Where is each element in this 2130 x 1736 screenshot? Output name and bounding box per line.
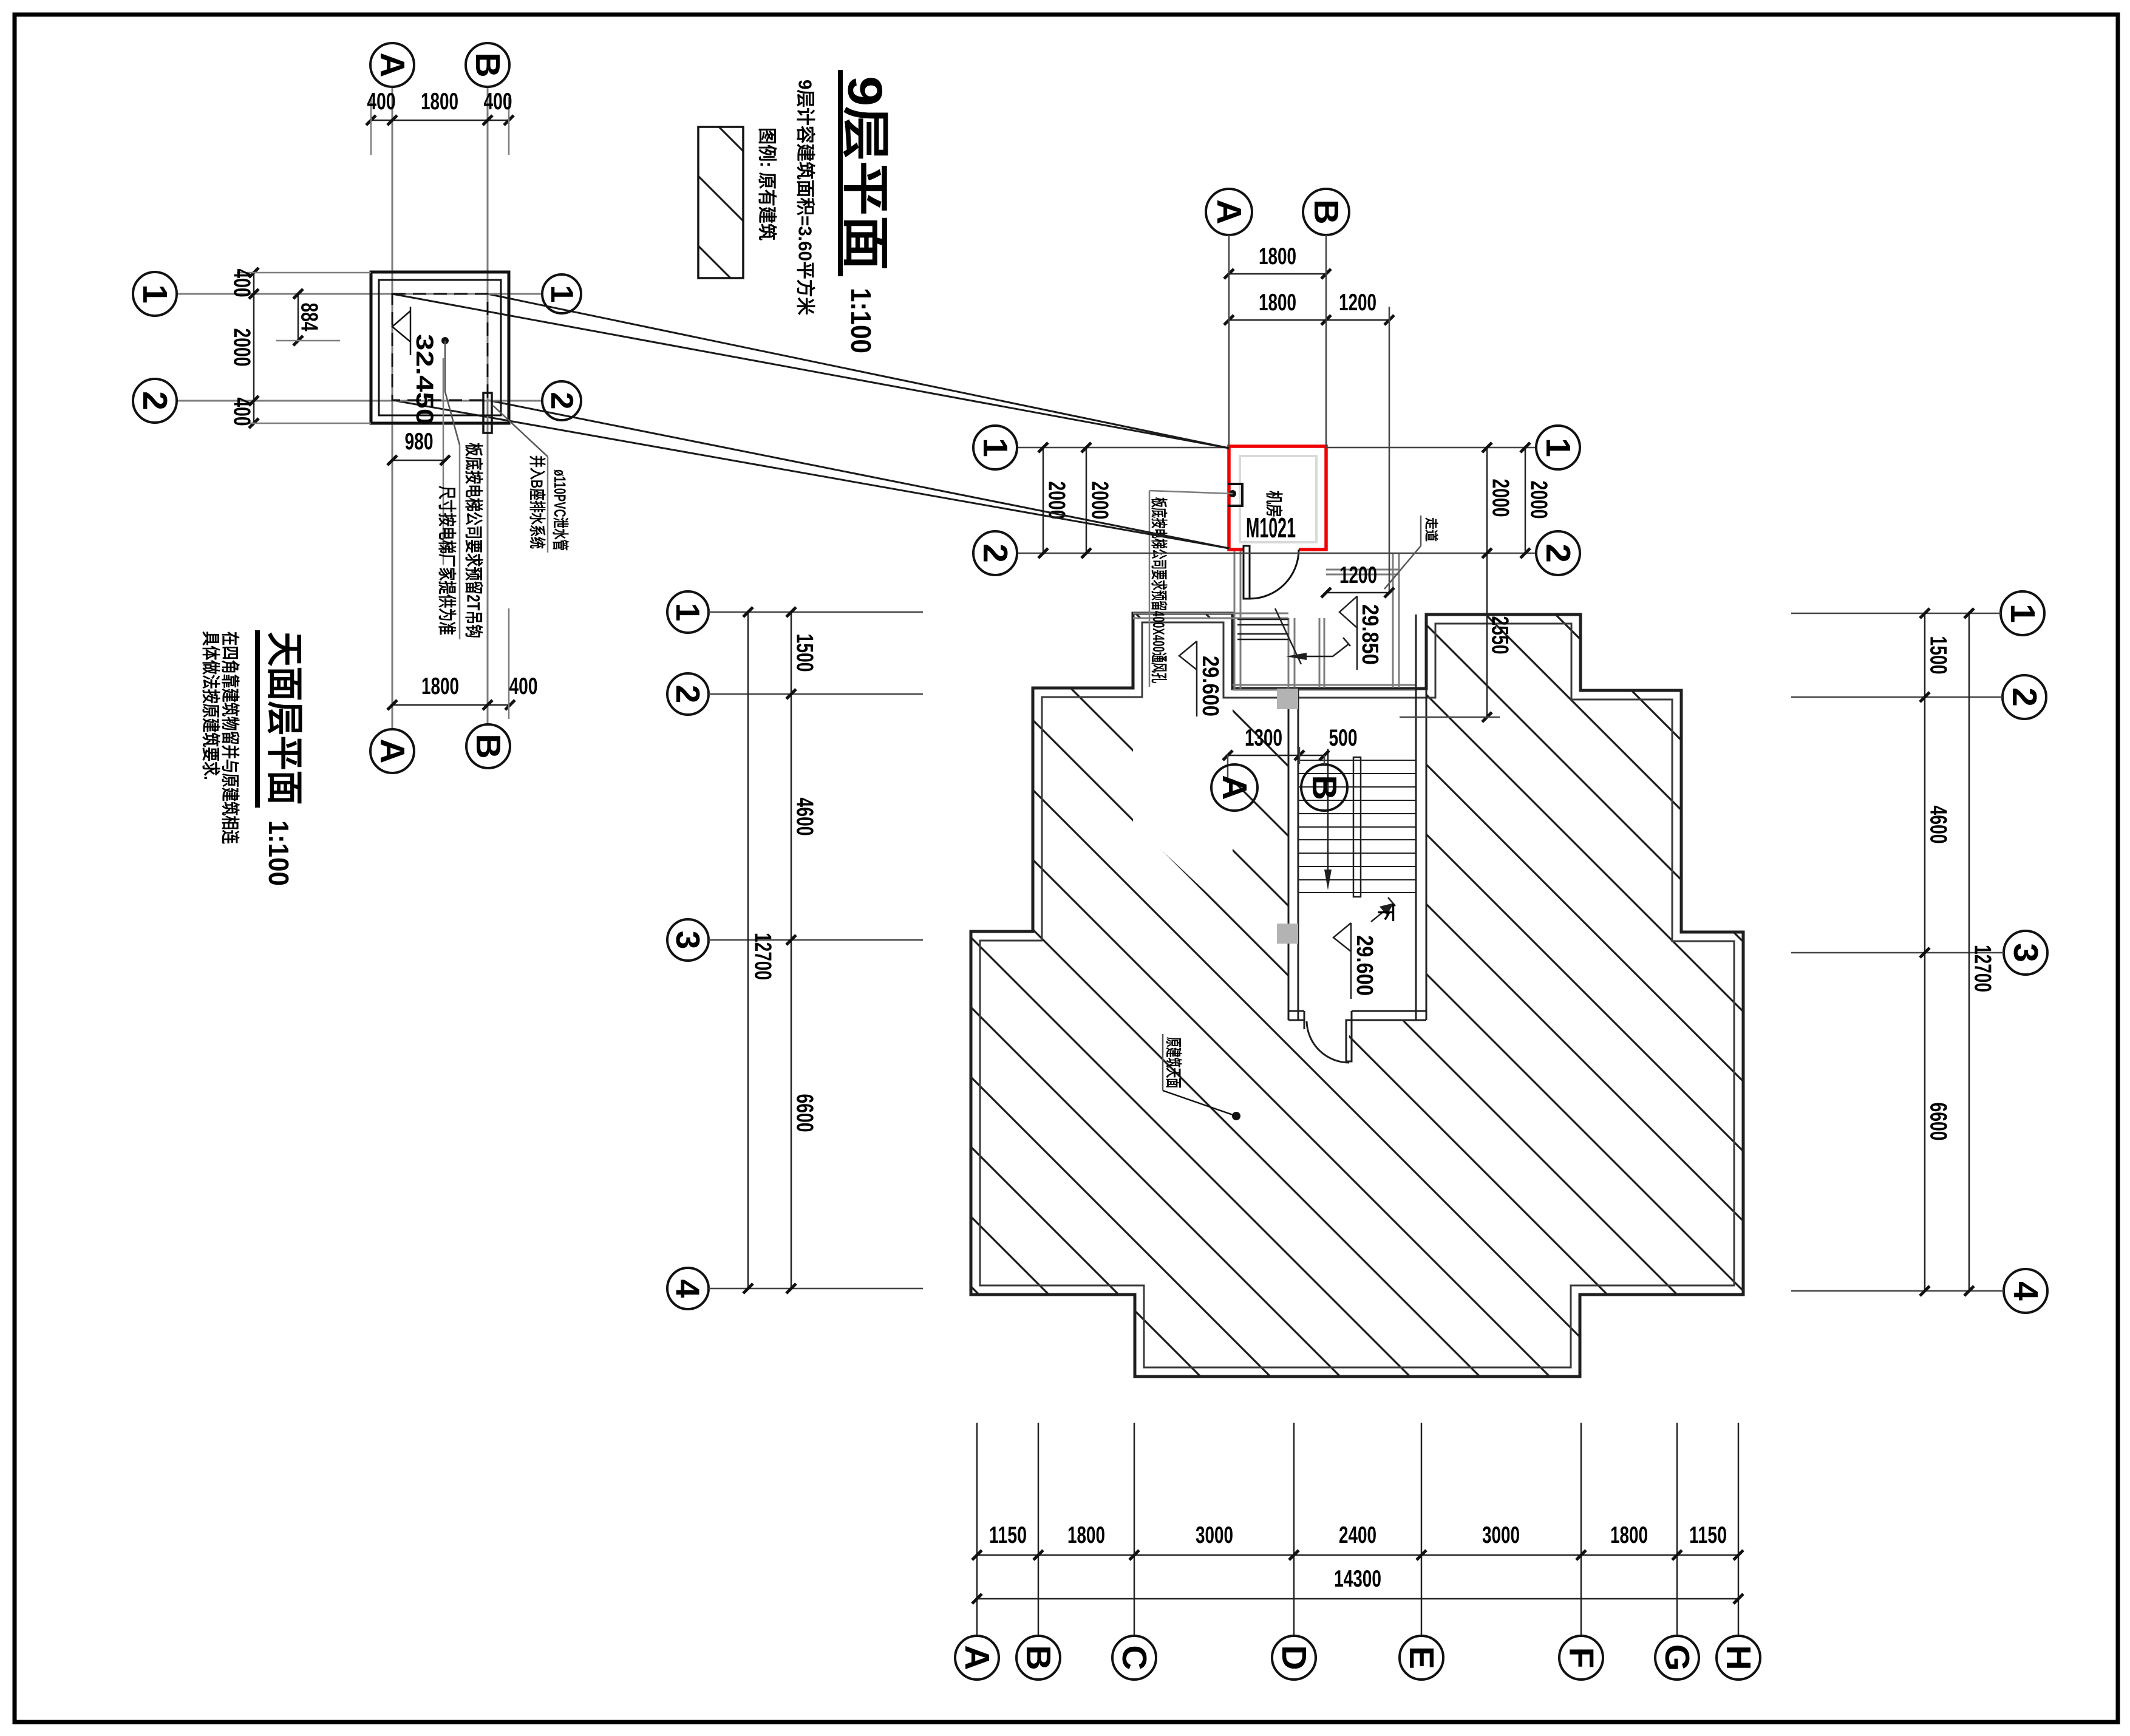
roof area label 原建筑天面 bbox=[1162, 1034, 1164, 1091]
bottom grid bubble A bbox=[370, 729, 414, 773]
grid line 2 bbox=[1017, 553, 1536, 554]
svg-text:2: 2 bbox=[976, 543, 1015, 563]
stairwell left wall bbox=[1288, 689, 1290, 1020]
bottom total dim line bbox=[977, 1598, 1738, 1600]
svg-text:400: 400 bbox=[229, 398, 255, 426]
detail line bottom a bbox=[392, 400, 1229, 548]
svg-text:板底按电梯公司要求预留2T吊钩: 板底按电梯公司要求预留2T吊钩 bbox=[463, 443, 483, 638]
svg-text:400: 400 bbox=[509, 673, 538, 700]
stair center railing bbox=[1353, 757, 1361, 897]
svg-text:1800: 1800 bbox=[1259, 243, 1296, 270]
level symbol 32.450 bbox=[392, 311, 410, 342]
svg-text:3000: 3000 bbox=[1196, 1522, 1233, 1548]
svg-text:板底按电梯公司要求预留400X400通风孔: 板底按电梯公司要求预留400X400通风孔 bbox=[1149, 497, 1168, 683]
column square lower bbox=[1277, 924, 1298, 944]
grid line 1 bbox=[1017, 447, 1229, 449]
top grid bubble A bbox=[370, 43, 414, 87]
right col bubble 2 bbox=[2002, 675, 2046, 719]
svg-text:1: 1 bbox=[2003, 604, 2042, 623]
svg-text:12700: 12700 bbox=[750, 933, 776, 980]
grid bubble 2 left bbox=[973, 531, 1017, 575]
svg-text:A: A bbox=[958, 1645, 996, 1670]
svg-text:2000: 2000 bbox=[229, 328, 255, 367]
dim 2000 left pair line b bbox=[1086, 448, 1087, 553]
svg-text:29.600: 29.600 bbox=[1197, 656, 1223, 717]
dim 980 bbox=[392, 460, 445, 461]
grid stub E bbox=[1421, 1423, 1423, 1636]
bottom dim line bbox=[392, 704, 510, 706]
svg-text:具体做法按原建筑要求.: 具体做法按原建筑要求. bbox=[200, 631, 221, 780]
grid line 1 horizontal gray bbox=[176, 293, 542, 295]
svg-text:2: 2 bbox=[135, 391, 174, 410]
svg-text:29.850: 29.850 bbox=[1357, 604, 1383, 665]
svg-text:B: B bbox=[1019, 1645, 1058, 1670]
svg-text:2: 2 bbox=[544, 392, 579, 410]
vent note rule bbox=[1149, 491, 1151, 687]
right col bubble 1 bbox=[2001, 591, 2044, 635]
bottom chain dim line bbox=[977, 1554, 1738, 1556]
svg-text:500: 500 bbox=[1329, 725, 1358, 751]
eave stub line bbox=[1400, 717, 1500, 718]
svg-text:1800: 1800 bbox=[421, 89, 458, 115]
svg-text:1200: 1200 bbox=[1339, 562, 1377, 588]
svg-text:9层计容建筑面积=3.60平方米: 9层计容建筑面积=3.60平方米 bbox=[795, 80, 816, 315]
dim 884 bbox=[298, 294, 299, 341]
left chain dim line bbox=[791, 612, 792, 1288]
svg-text:2550: 2550 bbox=[1487, 616, 1513, 655]
hatched existing-building mass with stair strip and landing holes bbox=[971, 613, 1743, 1377]
top dim line bbox=[371, 120, 509, 121]
machine room door leaf bbox=[1244, 546, 1250, 599]
svg-text:在四角靠建筑物留并与原建筑相连: 在四角靠建筑物留并与原建筑相连 bbox=[220, 631, 240, 845]
grid line 2 horizontal gray bbox=[176, 400, 542, 402]
corridor label 走道 leader bbox=[1420, 516, 1422, 546]
grid bubble 1 right bbox=[1536, 426, 1580, 469]
grid stub D bbox=[1293, 1423, 1295, 1636]
left total dim line bbox=[747, 612, 749, 1288]
svg-text:M1021: M1021 bbox=[1246, 512, 1296, 543]
svg-text:1:100: 1:100 bbox=[263, 820, 294, 886]
svg-text:F: F bbox=[1562, 1647, 1601, 1669]
landing bottom wall gray bbox=[1233, 684, 1416, 686]
svg-text:并入B座排水系统: 并入B座排水系统 bbox=[528, 455, 546, 549]
svg-text:4: 4 bbox=[2006, 1281, 2045, 1301]
svg-text:3: 3 bbox=[2006, 943, 2045, 962]
vent hole symbol bbox=[1228, 484, 1242, 506]
landing divider wall gray bbox=[1319, 618, 1321, 689]
white wedge for lower stair door swing bbox=[1307, 1021, 1349, 1064]
svg-text:6600: 6600 bbox=[792, 1094, 818, 1132]
svg-text:B: B bbox=[469, 734, 508, 758]
stairwell top edge bbox=[1288, 688, 1426, 690]
svg-text:1300: 1300 bbox=[1245, 725, 1282, 751]
level symbol 29.600 left landing bbox=[1179, 641, 1197, 670]
grid stem A bbox=[1228, 235, 1230, 446]
svg-text:1500: 1500 bbox=[1925, 636, 1951, 675]
left col bubble 4 bbox=[667, 1268, 709, 1309]
grid bubble A top bbox=[1206, 189, 1252, 235]
left grid bubble 2 bbox=[133, 379, 177, 423]
left col bubble 1 bbox=[667, 591, 709, 633]
svg-text:12700: 12700 bbox=[1970, 945, 1996, 992]
column square upper bbox=[1277, 689, 1298, 709]
detail line bottom b bbox=[488, 400, 1229, 548]
building outline outer bbox=[971, 613, 1743, 1377]
machine room door arc bbox=[1250, 550, 1299, 599]
landing top wall gray bbox=[1326, 569, 1399, 571]
dashed shaft rect bbox=[392, 294, 488, 400]
svg-text:1: 1 bbox=[669, 603, 707, 622]
top landing steps bbox=[1237, 619, 1288, 639]
svg-text:3000: 3000 bbox=[1482, 1522, 1520, 1548]
top dim line 1800 (first row) bbox=[1229, 273, 1326, 275]
svg-text:天面层平面: 天面层平面 bbox=[264, 632, 305, 805]
svg-text:D: D bbox=[1274, 1645, 1313, 1670]
stair break line bbox=[1275, 608, 1301, 664]
svg-text:6600: 6600 bbox=[1925, 1103, 1951, 1141]
svg-text:2: 2 bbox=[1539, 543, 1577, 563]
hook note rule bbox=[459, 445, 461, 639]
svg-text:2000: 2000 bbox=[1526, 481, 1552, 519]
svg-text:1: 1 bbox=[976, 438, 1015, 457]
svg-text:9层平面: 9层平面 bbox=[839, 76, 893, 270]
svg-text:1800: 1800 bbox=[1259, 290, 1296, 316]
stairwell bottom wall with door opening bbox=[1288, 1010, 1304, 1012]
grid stub A bbox=[976, 1423, 978, 1636]
corridor bottom wall (gray double) bbox=[1133, 613, 1288, 614]
svg-text:32.450: 32.450 bbox=[411, 334, 438, 425]
svg-text:29.600: 29.600 bbox=[1352, 935, 1377, 996]
svg-text:E: E bbox=[1402, 1646, 1441, 1669]
svg-text:884: 884 bbox=[296, 303, 322, 332]
dim 1200 landing bbox=[1326, 592, 1389, 594]
roof outer wall box bbox=[371, 272, 509, 423]
grid bubble B top bbox=[1303, 189, 1349, 235]
right grid bubble 1 bbox=[542, 274, 581, 313]
stair down arrow bbox=[1327, 749, 1329, 874]
left col bubble 3 bbox=[667, 919, 709, 961]
pipe leader bbox=[493, 406, 548, 457]
left dim ext stubs bbox=[237, 272, 371, 274]
svg-text:原建筑天面: 原建筑天面 bbox=[1164, 1037, 1183, 1088]
svg-text:尺寸按电梯厂家提供为准: 尺寸按电梯厂家提供为准 bbox=[437, 486, 457, 635]
svg-text:H: H bbox=[1719, 1645, 1758, 1670]
bottom bubbles bbox=[955, 1636, 1760, 1680]
level symbol 29.850 triangle bbox=[1339, 596, 1357, 628]
svg-text:1: 1 bbox=[1539, 438, 1577, 457]
svg-text:A: A bbox=[373, 52, 412, 77]
pvc pipe symbol bbox=[483, 393, 492, 433]
grid stub G bbox=[1676, 1423, 1678, 1636]
detail line top b bbox=[488, 294, 1229, 448]
right chain dim line bbox=[1924, 613, 1926, 1291]
grid stub H bbox=[1738, 1423, 1740, 1636]
top flight arrow bbox=[1290, 656, 1333, 658]
level leader dot bbox=[441, 337, 449, 344]
dim 2000 right bbox=[1525, 448, 1526, 553]
svg-text:走道: 走道 bbox=[1424, 517, 1439, 542]
svg-text:2: 2 bbox=[669, 685, 707, 704]
right grid bubble 2 bbox=[542, 381, 581, 420]
flight side wall gray bbox=[1288, 618, 1290, 689]
svg-text:4600: 4600 bbox=[792, 798, 818, 836]
building outline inner bbox=[980, 622, 1734, 1367]
machine room red outline bbox=[1229, 446, 1326, 550]
pvc note rule bbox=[547, 457, 549, 553]
top dim line second row 1800/1200 bbox=[1229, 319, 1389, 321]
bottom grid bubble B bbox=[466, 724, 510, 768]
svg-text:ø110PVC泄水管: ø110PVC泄水管 bbox=[551, 469, 569, 551]
svg-text:A: A bbox=[1210, 199, 1248, 224]
grid stub F bbox=[1580, 1423, 1582, 1636]
svg-text:图例: 原有建筑: 图例: 原有建筑 bbox=[757, 128, 778, 240]
svg-text:2000: 2000 bbox=[1087, 482, 1113, 520]
top dim ext stubs bbox=[370, 97, 372, 155]
svg-text:1200: 1200 bbox=[1339, 290, 1376, 316]
svg-text:1150: 1150 bbox=[1689, 1522, 1727, 1548]
corridor left wall gray bbox=[1234, 550, 1236, 689]
lower stair door arc bbox=[1307, 1021, 1349, 1063]
svg-text:1500: 1500 bbox=[792, 634, 818, 672]
title 天面层平面 underline bbox=[255, 630, 260, 808]
svg-text:1: 1 bbox=[544, 285, 579, 303]
level leader line bbox=[443, 358, 444, 565]
grid line A vertical gray bbox=[392, 87, 393, 729]
right col bubble 3 bbox=[2004, 931, 2047, 975]
svg-text:14300: 14300 bbox=[1334, 1566, 1381, 1592]
svg-text:1800: 1800 bbox=[421, 673, 459, 700]
svg-text:A: A bbox=[373, 738, 412, 763]
svg-text:下: 下 bbox=[1376, 904, 1396, 922]
left col bubble 2 bbox=[667, 673, 709, 715]
svg-text:C: C bbox=[1115, 1645, 1154, 1670]
title 9层平面 underline bbox=[838, 70, 843, 276]
top grid bubble B bbox=[466, 43, 509, 87]
right col bubble 4 bbox=[2004, 1269, 2047, 1313]
svg-text:400: 400 bbox=[229, 269, 255, 298]
roof inner wall box bbox=[379, 280, 501, 415]
svg-text:3: 3 bbox=[669, 931, 707, 950]
svg-text:1800: 1800 bbox=[1610, 1522, 1648, 1548]
dim 2000/2550 chain bbox=[1486, 448, 1488, 717]
svg-text:4: 4 bbox=[669, 1279, 707, 1298]
svg-text:1: 1 bbox=[135, 284, 174, 304]
mid-plan dim 1300/500 bbox=[1228, 755, 1324, 757]
lower flight direction arrow bbox=[1371, 906, 1390, 922]
svg-text:A: A bbox=[1215, 775, 1254, 800]
svg-text:G: G bbox=[1658, 1644, 1696, 1671]
grid bubble B mid bbox=[1301, 764, 1347, 811]
svg-text:400: 400 bbox=[367, 89, 396, 115]
left dim chain line bbox=[253, 273, 255, 423]
legend hatch box bbox=[698, 127, 743, 278]
svg-text:B: B bbox=[1307, 199, 1346, 224]
svg-text:1150: 1150 bbox=[989, 1522, 1027, 1548]
svg-text:1800: 1800 bbox=[1067, 1522, 1105, 1548]
grid stem B bbox=[1325, 235, 1327, 446]
dim 2000 left pair line a bbox=[1043, 448, 1044, 553]
grid line B vertical gray bbox=[487, 87, 489, 724]
svg-text:B: B bbox=[1305, 775, 1344, 800]
stair treads bbox=[1298, 760, 1416, 893]
grid stub B bbox=[1038, 1423, 1039, 1636]
ext line x2288 bbox=[1389, 307, 1390, 593]
landing right wall gray bbox=[1392, 553, 1394, 689]
right total dim line bbox=[1968, 613, 1970, 1291]
svg-text:4600: 4600 bbox=[1925, 806, 1951, 844]
svg-text:1:100: 1:100 bbox=[845, 288, 877, 353]
grid bubble 1 left bbox=[973, 426, 1017, 469]
svg-text:980: 980 bbox=[405, 429, 434, 455]
svg-text:2: 2 bbox=[2005, 687, 2044, 707]
machine room inner pale wall line bbox=[1240, 456, 1316, 542]
level symbol 29.600 lower landing bbox=[1333, 923, 1351, 951]
grid stub C bbox=[1134, 1423, 1135, 1636]
vent leader line bbox=[1149, 491, 1233, 494]
svg-text:2400: 2400 bbox=[1339, 1522, 1376, 1548]
svg-text:400: 400 bbox=[484, 89, 512, 115]
vent leader dot bbox=[1229, 490, 1236, 497]
grid bubble A mid bbox=[1211, 764, 1257, 811]
detail line top a bbox=[392, 294, 1229, 448]
left grid bubble 1 bbox=[133, 272, 177, 316]
lower stair door leaf bbox=[1346, 1020, 1352, 1061]
stairwell right wall bbox=[1415, 614, 1417, 1020]
svg-text:2000: 2000 bbox=[1488, 479, 1514, 517]
svg-text:B: B bbox=[468, 52, 507, 77]
grid bubble 2 right bbox=[1536, 531, 1580, 575]
